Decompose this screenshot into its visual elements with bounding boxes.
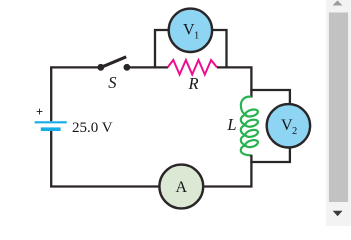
svg-text:+: +	[36, 105, 43, 119]
ammeter A	[159, 165, 203, 209]
wire: left-top vertical from battery up and top segment to switch	[51, 67, 98, 121]
switch S right contact dot	[124, 64, 131, 71]
switch S lever	[101, 57, 126, 68]
svg-text:S: S	[108, 73, 116, 92]
wire: coil to bottom-right corner and bottom segment to ammeter	[204, 155, 251, 187]
scrollbar down arrow	[333, 211, 343, 216]
wire: V1 branch left (junction to circle)	[155, 30, 169, 69]
svg-text:25.0 V: 25.0 V	[72, 120, 113, 136]
wire: battery down to bottom-left corner and bottom segment to ammeter	[51, 131, 159, 187]
wire: V1 branch right (circle to junction)	[212, 30, 227, 69]
battery bottom plate (negative, short thick)	[41, 127, 61, 131]
voltmeter V2	[267, 104, 310, 147]
svg-text:A: A	[176, 179, 188, 196]
wire: V2 branch top (junction to circle top)	[250, 90, 290, 105]
wire: resistor to top-right corner down to coil	[217, 67, 251, 97]
scrollbar thumb	[329, 13, 348, 203]
scrollbar up arrow	[333, 0, 343, 5]
wire: switch to resistor	[130, 66, 168, 68]
battery top plate (positive, long thin)	[35, 121, 67, 123]
svg-text:R: R	[187, 74, 198, 93]
scrollbar track	[326, 0, 351, 226]
svg-text:L: L	[226, 115, 236, 134]
resistor R zigzag	[168, 60, 217, 75]
voltmeter V1	[169, 9, 212, 52]
inductor L coil	[241, 97, 258, 156]
switch S left contact dot	[97, 64, 104, 71]
wire: V2 branch bottom (circle bottom to junction)	[250, 147, 290, 162]
